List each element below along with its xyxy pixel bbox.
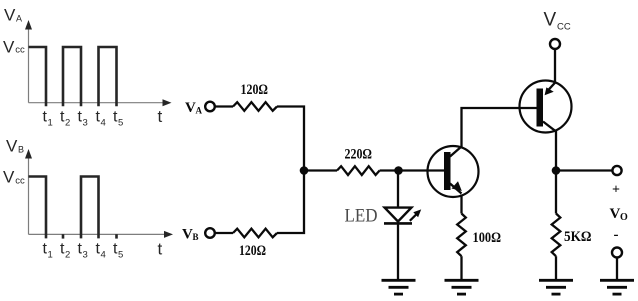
svg-text:A: A bbox=[196, 106, 203, 116]
svg-text:V: V bbox=[544, 10, 557, 31]
svg-text:5: 5 bbox=[118, 118, 123, 129]
svg-text:5KΩ: 5KΩ bbox=[564, 229, 592, 245]
svg-text:A: A bbox=[16, 14, 22, 24]
svg-text:4: 4 bbox=[101, 250, 106, 261]
svg-text:B: B bbox=[193, 232, 199, 242]
svg-text:cc: cc bbox=[15, 45, 25, 56]
svg-text:-: - bbox=[614, 227, 619, 243]
svg-text:V: V bbox=[4, 6, 16, 25]
svg-text:+: + bbox=[612, 183, 620, 198]
svg-text:V: V bbox=[185, 100, 196, 116]
svg-text:B: B bbox=[18, 145, 24, 155]
svg-text:t: t bbox=[158, 107, 163, 126]
svg-text:cc: cc bbox=[15, 176, 25, 187]
svg-text:5: 5 bbox=[118, 250, 123, 261]
svg-text:1: 1 bbox=[48, 250, 53, 261]
svg-text:CC: CC bbox=[557, 22, 571, 33]
svg-text:2: 2 bbox=[65, 250, 70, 261]
svg-text:120Ω: 120Ω bbox=[241, 82, 269, 98]
svg-text:V: V bbox=[3, 168, 15, 187]
svg-text:220Ω: 220Ω bbox=[345, 147, 373, 163]
svg-text:t: t bbox=[158, 240, 163, 259]
svg-text:V: V bbox=[182, 227, 193, 243]
svg-text:1: 1 bbox=[48, 118, 53, 129]
svg-text:LED: LED bbox=[345, 206, 378, 227]
svg-text:3: 3 bbox=[83, 250, 88, 261]
svg-text:V: V bbox=[6, 137, 18, 156]
svg-text:O: O bbox=[620, 212, 628, 223]
svg-text:100Ω: 100Ω bbox=[473, 230, 502, 246]
svg-text:3: 3 bbox=[83, 118, 88, 129]
svg-text:V: V bbox=[610, 206, 621, 222]
svg-text:2: 2 bbox=[65, 118, 70, 129]
svg-text:4: 4 bbox=[101, 118, 106, 129]
svg-text:120Ω: 120Ω bbox=[239, 243, 266, 259]
svg-text:V: V bbox=[3, 38, 15, 57]
